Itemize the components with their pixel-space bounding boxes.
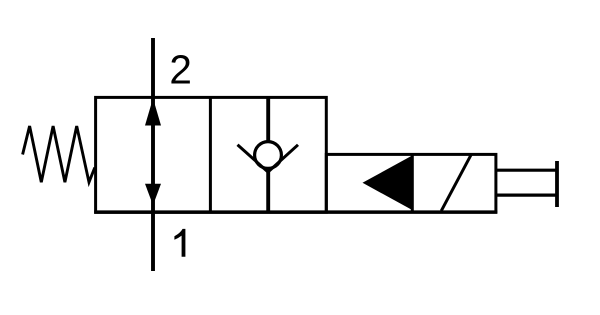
check valve lower line: [266, 171, 270, 212]
position divider: [209, 97, 212, 212]
bottom border line (shared by valve body and solenoid): [94, 210, 497, 214]
flow path shaft: [151, 99, 155, 210]
manual override end cap: [555, 161, 559, 207]
manual override rod upper line: [496, 169, 557, 172]
solenoid box: [326, 154, 496, 212]
down arrowhead: [145, 184, 161, 206]
check valve upper line: [266, 97, 270, 141]
valve body box: [96, 97, 327, 212]
check valve seat right arm: [268, 145, 298, 172]
check valve ball circle: [255, 142, 282, 169]
port 1 line: [151, 210, 155, 271]
up arrowhead: [145, 98, 161, 125]
solenoid slash: [441, 155, 471, 211]
port 2 line: [151, 38, 155, 99]
manual override rod lower line: [496, 194, 557, 197]
svg-text:2: 2: [169, 47, 192, 93]
check valve seat left arm: [238, 145, 269, 172]
spring: [23, 126, 95, 182]
solenoid divider: [411, 154, 414, 212]
solenoid armature triangle: [363, 156, 412, 210]
port 1 label: [174, 229, 185, 257]
